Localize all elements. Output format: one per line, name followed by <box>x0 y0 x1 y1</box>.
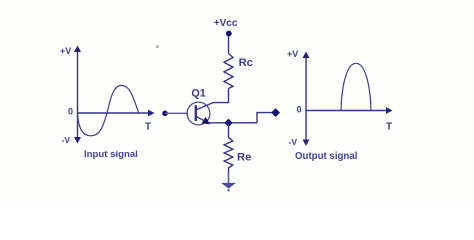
svg-text:+Vcc: +Vcc <box>214 18 238 29</box>
svg-text:T: T <box>145 122 151 133</box>
wire Re to ground <box>228 172 230 183</box>
wire junction to Re <box>228 123 230 138</box>
node IN dot <box>162 111 168 117</box>
output half-wave hump <box>341 63 371 110</box>
wire Rc to +Vcc <box>228 34 230 54</box>
svg-text:Output signal: Output signal <box>295 151 357 162</box>
input signal x-axis <box>78 110 155 117</box>
resistor Re <box>224 137 233 172</box>
svg-text:+V: +V <box>60 46 71 56</box>
wire emitter rail <box>208 122 257 124</box>
svg-text:0: 0 <box>68 107 73 117</box>
ground <box>221 183 236 192</box>
wire input node to base <box>165 112 188 114</box>
svg-text:Q1: Q1 <box>191 87 205 99</box>
svg-text:Re: Re <box>237 152 251 164</box>
svg-text:Input signal: Input signal <box>84 149 138 160</box>
junction node (emitter/Re/output) <box>225 119 232 126</box>
svg-text:+V: +V <box>287 49 298 59</box>
svg-text:T: T <box>386 122 392 133</box>
resistor Rc <box>224 54 233 89</box>
svg-text:-V: -V <box>62 135 71 145</box>
wire output step (emitter rail to output node) <box>257 113 273 123</box>
+Vcc terminal dot <box>226 31 232 37</box>
input sine waveform <box>78 85 139 135</box>
node OUT dot <box>272 109 279 116</box>
input signal y-axis <box>74 46 81 144</box>
output signal x-axis <box>306 107 393 114</box>
output signal y-axis <box>303 52 310 147</box>
svg-text:Rc: Rc <box>239 57 253 69</box>
stray mark <box>156 45 159 48</box>
wire collector to Rc <box>213 89 229 103</box>
transistor Q1 <box>187 102 213 125</box>
svg-text:0: 0 <box>297 105 302 115</box>
svg-text:-V: -V <box>289 137 298 147</box>
